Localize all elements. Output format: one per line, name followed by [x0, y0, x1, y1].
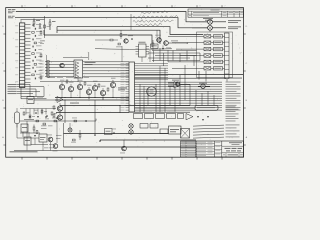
resistor pack RP5 [140, 124, 148, 129]
capacitor C26 [35, 112, 37, 114]
resistor R2 [49, 22, 51, 25]
transistor Q2 [68, 86, 73, 91]
op-amp U11 [186, 114, 193, 120]
wire ladder drop [20, 88, 22, 99]
wire long bottom 2 [100, 139, 196, 141]
capacitor C17 [34, 49, 36, 51]
wire bl2 v1 [22, 132, 24, 137]
wire lattice h4 [148, 57, 190, 59]
svg-text:3: 3 [150, 6, 151, 8]
capacitor C19 [34, 56, 36, 58]
label above wire [37, 96, 43, 99]
transistor Q16 [53, 144, 58, 149]
transistor Q4 [86, 89, 91, 94]
bottom note text [10, 151, 38, 152]
handwritten pencil annotation line 4 [136, 23, 161, 26]
wire y121 bus [20, 120, 96, 122]
wire bl2 v2 [28, 132, 30, 137]
IC U1 right pin wires long [135, 81, 223, 83]
IC U1 microcontroller [129, 62, 135, 112]
parts list table [181, 141, 197, 157]
wire bus below IC [129, 111, 190, 113]
revision row line [188, 13, 244, 15]
wire box top feed [88, 52, 90, 60]
resistor pack RP4 [167, 114, 176, 119]
label wire bends [29, 84, 31, 96]
resistor R15 [44, 25, 46, 28]
resistor R38 [43, 123, 46, 125]
resistor R41 [74, 120, 77, 122]
vertical tap 12 [195, 90, 197, 106]
resistor R22 [98, 84, 100, 87]
wires into relay array [168, 35, 197, 37]
resistor pack RP1 [134, 114, 143, 119]
resistor R32 [29, 115, 31, 118]
label cluster left-mid [40, 40, 45, 43]
capacitor C16 [32, 46, 34, 48]
transistor Q7 [110, 82, 115, 87]
resistor R40 [54, 120, 57, 122]
IC U3 level shifter [139, 44, 147, 57]
wire mid horizontal 1 [95, 48, 172, 51]
capacitor C18 [32, 53, 34, 55]
transistor Q10 [208, 19, 213, 24]
resistor R6 [110, 39, 113, 41]
wire vertical x46 mid [46, 55, 48, 76]
handwritten pencil annotation line 3 [133, 20, 173, 23]
diode CR7 [73, 139, 76, 141]
wire Q10 base drop [209, 30, 211, 32]
wire drop x120 [119, 106, 121, 114]
signal label box LB2 [214, 41, 223, 44]
crystal Y1 circle [147, 87, 157, 97]
signal label box LB6 [214, 67, 223, 70]
resistor R21 [84, 82, 86, 85]
capacitor C13 [34, 35, 36, 37]
delay line DL1 [195, 106, 218, 111]
capacitor C35 [34, 134, 36, 136]
transistor Q8 [57, 106, 62, 111]
capacitor C32 [45, 116, 47, 118]
wire cluster feed [156, 30, 158, 38]
IC U15 small box [105, 129, 113, 135]
signal label box LB1 [214, 35, 223, 38]
capacitor C31 [37, 115, 39, 117]
resistor pack RP8 [178, 114, 184, 119]
wire bl2 v6 [56, 121, 58, 143]
border frame [6, 8, 244, 158]
comparator array U6 [74, 60, 83, 78]
wire rail 4 [56, 112, 129, 114]
wire bl2 v4 [42, 142, 44, 151]
transistor Q15 [48, 137, 53, 142]
wire drop left x63 [63, 123, 65, 147]
title block drawing title [225, 148, 231, 149]
svg-text:7: 7 [225, 6, 226, 8]
wire net long A [135, 74, 244, 76]
label near Q22 [171, 40, 178, 43]
resistor R37 [36, 120, 39, 122]
crystal Y2 [15, 112, 20, 124]
wire long y81.5 [40, 81, 129, 83]
capacitor C27 [46, 115, 48, 117]
resistor R1 [33, 21, 35, 24]
vertical tap 3 [147, 88, 149, 106]
transistor Q14 [129, 130, 133, 134]
resistor R42 [33, 127, 35, 130]
capacitor C25 [34, 78, 36, 80]
voltage regulator VR1 [169, 126, 182, 134]
wire lattice v6 [186, 51, 188, 61]
vertical tap 8 [174, 88, 176, 112]
revision row 2 text [189, 14, 191, 17]
opto coupler K1 [204, 35, 211, 38]
svg-text:7: 7 [50, 6, 51, 8]
connector J1 pin numbers [15, 25, 18, 28]
capacitor C21 [202, 118, 204, 120]
capacitor C10 [32, 24, 34, 26]
resistor R20 [66, 80, 68, 83]
transistor Q20 [124, 39, 128, 43]
IC U1 left pins [126, 63, 130, 65]
op-amp U10 [57, 97, 63, 103]
comparator input wires [45, 61, 74, 63]
note block 2 [8, 15, 11, 18]
resistor R43 [36, 131, 38, 134]
zone tick marks top [21, 5, 23, 7]
vertical tap 14 [207, 91, 209, 106]
capacitor C25 [99, 140, 101, 142]
resistor R30 [79, 134, 81, 137]
label 4 channel [85, 61, 96, 64]
transistor Q19 [60, 63, 64, 67]
resistor R14 [40, 76, 42, 79]
vertical tap 4 [155, 84, 157, 112]
wire lattice h1 [152, 50, 197, 52]
revision table [188, 9, 244, 17]
comparator input diodes [47, 61, 49, 63]
title block number row [225, 153, 227, 157]
wire lattice v5 [179, 53, 181, 62]
title block middle column [221, 141, 223, 157]
wire mid bus [63, 57, 88, 59]
wire drop x65 [64, 100, 66, 123]
vertical tap 2 [143, 86, 145, 112]
wire bl2 h3 [31, 144, 48, 146]
label collector A [228, 19, 241, 22]
capacitor C1 [39, 25, 41, 27]
transistor Q3 [77, 84, 82, 89]
svg-text:2: 2 [175, 6, 176, 8]
wire bottom-left drops [25, 109, 27, 115]
wire drop x96 [95, 119, 97, 122]
resistor R23 [107, 88, 109, 91]
svg-text:8: 8 [25, 6, 26, 8]
junction dots rails [64, 97, 65, 98]
vertical tap 13 [201, 93, 203, 106]
capacitor C15 [34, 42, 36, 44]
svg-text:4: 4 [125, 6, 126, 8]
wire net TP2 [15, 18, 207, 28]
transistor Q13 [129, 124, 133, 128]
wire stub Q10 base [209, 23, 211, 26]
wire lattice h2 [148, 52, 200, 54]
wire crystal drop [16, 124, 18, 139]
capacitor C20 [32, 60, 34, 62]
signal label box LB4 [214, 54, 223, 57]
wire bus line 3 [57, 27, 203, 35]
wire rail 1 [55, 97, 129, 99]
IC U12 [21, 124, 28, 132]
resistor pack RP7 [160, 129, 168, 134]
note under revision table [203, 17, 213, 20]
wire lattice v2 [159, 48, 161, 61]
label rail [70, 102, 79, 105]
wire bl2 v3 [34, 138, 36, 145]
title block left column [214, 141, 216, 157]
IC U13 [24, 137, 31, 145]
transistor Q22 [164, 41, 169, 46]
signal name labels left [8, 83, 17, 86]
connector J2 strip [225, 33, 230, 79]
wire rail 3 [60, 105, 190, 107]
wire bl v27 [26, 121, 28, 151]
label collector B [228, 25, 241, 28]
svg-text:6: 6 [75, 6, 76, 8]
connector J1 pin wires [25, 24, 31, 26]
bridge rectifier BR1 [181, 129, 190, 139]
labels column bottom-left [41, 125, 47, 128]
vertical tap 15 [213, 95, 215, 106]
relay array enclosure [197, 32, 233, 78]
capacitor C30 [29, 115, 31, 117]
capacitor C23 [34, 70, 36, 72]
capacitor C21 [34, 63, 36, 65]
IC U9 small box [27, 97, 34, 104]
opto coupler K4 [204, 54, 211, 57]
wire top horizontal y19.6 [21, 19, 45, 21]
wire bl h0 [20, 108, 56, 110]
wire ladder top feed [20, 20, 22, 23]
opto coupler K2 [204, 41, 211, 44]
svg-text:8: 8 [200, 6, 201, 8]
transistor Q21 [157, 38, 162, 43]
wire drop x95 [94, 100, 96, 130]
wire bus line 4 [57, 30, 160, 44]
vertical tap 9 [179, 75, 181, 106]
diode CR1 [118, 43, 120, 45]
transistor Q1 [59, 84, 64, 89]
op-amp U8 [174, 82, 181, 89]
transistor Q17 [175, 82, 179, 86]
resistor R31 [23, 112, 25, 115]
resistor R7 [152, 43, 154, 46]
zone tick marks bottom [21, 157, 23, 159]
net labels lower right field [226, 106, 236, 109]
revision row text [193, 11, 219, 14]
vertical tap 7 [169, 86, 171, 106]
power net labels [193, 125, 224, 126]
capacitor C11 [34, 28, 36, 30]
wire lattice v7 [193, 56, 195, 67]
wire bus line 5 [44, 35, 152, 47]
capacitor C28 [56, 117, 58, 119]
capacitor C22 [207, 115, 209, 117]
wire long bottom 3 [64, 147, 197, 157]
title block outline [196, 141, 244, 157]
wire y150 long [14, 150, 90, 152]
IC U14 [39, 134, 47, 142]
transistor Q9 [57, 115, 62, 120]
svg-text:5: 5 [100, 6, 101, 8]
wire bl2 h2 [17, 137, 39, 139]
wire bl2 h1 [20, 132, 40, 134]
diode CR3 cluster [68, 128, 72, 132]
vertical tap 1 [139, 84, 141, 112]
relay array drop wires [198, 71, 200, 80]
handwritten pencil annotation line 1 [141, 11, 168, 14]
capacitor C24 [32, 74, 34, 76]
wire lattice v4 [172, 51, 174, 61]
label REG 5V [118, 87, 127, 90]
opto coupler K5 [204, 60, 211, 63]
label net B [228, 77, 242, 80]
wire lattice v3 [163, 53, 165, 66]
capacitor C22 [32, 67, 34, 69]
capacitor C34 [113, 132, 115, 134]
wire bus below IC 2 [135, 107, 196, 109]
capacitor C14 [32, 39, 34, 41]
paper background [0, 0, 250, 164]
IC U1 right pin wires short [135, 63, 169, 65]
vertical tap 5 [159, 66, 161, 112]
wire net TP1 [16, 12, 207, 22]
wire lattice v1 [153, 51, 155, 63]
wire rail 2 [55, 99, 129, 101]
wire net long B [135, 77, 227, 79]
resistor R12 [40, 31, 42, 34]
wire vertical x44 [44, 16, 46, 38]
comparator output wires [83, 61, 129, 63]
signal label box LB3 [214, 47, 223, 50]
resistor R25 [53, 114, 55, 117]
wire bl h0b [24, 119, 34, 121]
transistor Q12 [201, 84, 205, 88]
capacitor C4 [131, 38, 133, 40]
wire long bottom 1 [64, 133, 169, 135]
wire drop x131 [130, 14, 132, 30]
wire lattice h5 [152, 60, 200, 62]
title block company name [229, 141, 242, 144]
capacitor C33 [85, 120, 87, 122]
wire to relay array [168, 42, 186, 44]
resistor pack RP2 [145, 114, 154, 119]
wire lattice v8 [199, 53, 201, 61]
wire drop x122 [121, 46, 123, 62]
resistor R36 [51, 112, 53, 115]
net labels right field [226, 81, 241, 84]
labels row below box [48, 76, 55, 79]
transistor Q11 [208, 25, 213, 30]
opto coupler K3 [204, 47, 211, 50]
resistor pack RP3 [156, 114, 165, 119]
capacitor C20 [197, 115, 199, 117]
opto coupler K6 [204, 67, 211, 70]
resistor R5 [120, 34, 122, 37]
transistor Q18 [122, 146, 127, 151]
transistor Q5 [92, 85, 97, 90]
signal label box LB5 [214, 60, 223, 63]
IC U16 small box [151, 44, 159, 48]
vertical tap 6 [164, 68, 166, 112]
resistor R24 [53, 106, 55, 109]
capacitor C24 [94, 134, 96, 136]
wire pair bottom of ladder [21, 96, 44, 98]
note block 1 [8, 8, 11, 11]
handwritten pencil annotation line 2 [133, 16, 178, 19]
capacitor C12 [32, 31, 34, 33]
vertical tap 11 [189, 84, 191, 106]
resistor pack RP6 [150, 124, 158, 129]
connector J1 edge connector [20, 23, 25, 88]
wire stub [56, 27, 58, 33]
wire drop x124 [123, 140, 125, 146]
resistor R33 [41, 110, 43, 113]
vertical tap 10 [184, 65, 186, 100]
wire lattice h3 [155, 55, 197, 57]
wire bl2 v5 [50, 142, 52, 151]
resistor R13 [40, 54, 42, 57]
capacitor C6 [162, 47, 164, 49]
transistor Q6 [100, 90, 105, 95]
